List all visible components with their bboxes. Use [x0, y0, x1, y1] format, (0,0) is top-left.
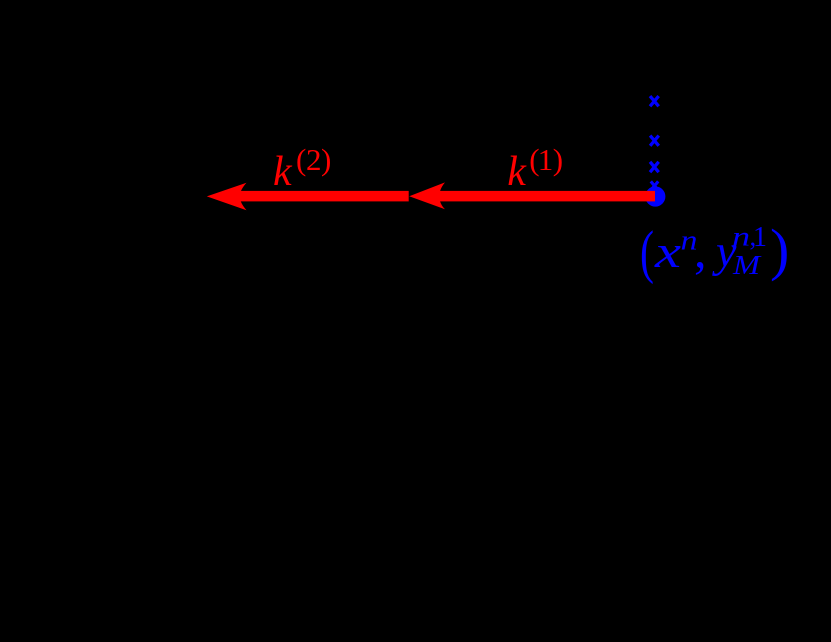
iterate marker x4 (blue cross, partially behind dot) — [651, 181, 658, 190]
svg-text:1: 1 — [753, 222, 767, 253]
point marker: blue dot at (x^n, y_M^{n,1}) — [645, 186, 665, 206]
iterate marker x1 (blue cross, top) — [650, 96, 659, 106]
svg-text:(: ( — [296, 142, 306, 177]
svg-text:M: M — [732, 250, 762, 280]
iterate marker x3 (blue cross) — [650, 162, 659, 172]
label (x^n, y_M^{n,1}) (blue) — [640, 217, 789, 285]
svg-text:): ) — [770, 217, 789, 282]
svg-text:): ) — [553, 142, 563, 177]
svg-text:1: 1 — [538, 142, 554, 177]
svg-text:2: 2 — [306, 142, 322, 177]
svg-text:,: , — [694, 222, 707, 278]
svg-text:(: ( — [640, 219, 654, 285]
svg-text:x: x — [654, 226, 682, 277]
label k^(2) (red) — [273, 142, 331, 195]
label k^(1) (red) — [507, 142, 563, 195]
svg-text:): ) — [321, 142, 331, 177]
arrow k2 shaft (red) — [239, 191, 409, 202]
svg-text:k: k — [273, 149, 293, 195]
arrow k1 shaft (red, from dot going left) — [439, 191, 655, 202]
arrow k2 head — [207, 183, 247, 211]
svg-text:k: k — [507, 149, 527, 195]
iterate marker x2 (blue cross) — [650, 136, 659, 146]
svg-text:n: n — [732, 221, 750, 251]
arrow k1 head — [409, 182, 445, 209]
